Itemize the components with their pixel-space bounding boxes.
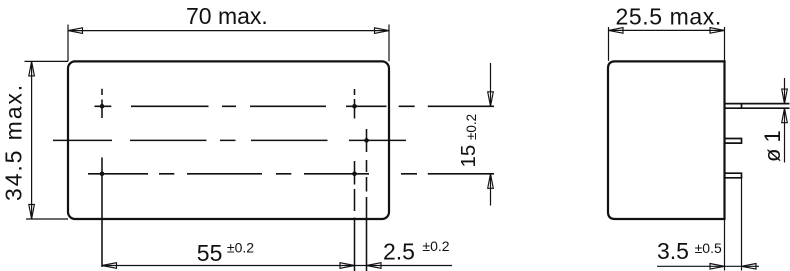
- svg-text:±0.5: ±0.5: [695, 240, 722, 256]
- dimension diameter 1: dimension line lower part: [784, 108, 786, 162]
- dimension 34.5 max: dimension line: [31, 61, 33, 219]
- svg-text:25.5 max.: 25.5 max.: [616, 3, 722, 29]
- svg-text:±0.2: ±0.2: [227, 240, 254, 256]
- dimension 15: upper arrowhead (points down): [488, 92, 494, 107]
- pin 2 (middle): [725, 139, 742, 144]
- dimension 34.5 max: top arrowhead: [29, 61, 35, 76]
- dimension 70 max: left arrowhead: [68, 28, 83, 34]
- dimension 70 max: dimension line: [68, 30, 389, 32]
- dimension 55: right arrowhead: [340, 263, 355, 269]
- pin hole mark middle: [364, 138, 369, 143]
- dimension 70 max: extension line right: [388, 25, 390, 62]
- svg-text:70 max.: 70 max.: [186, 3, 268, 29]
- dimension diameter 1: upper arrowhead (points down): [782, 89, 788, 104]
- dimension 70 max: extension line left: [67, 25, 69, 62]
- svg-text:3.5: 3.5: [657, 238, 689, 264]
- pin hole mark top-right: [352, 104, 357, 109]
- dimension 2.5: arrowhead from right: [367, 263, 382, 269]
- dimension 34.5 max: extension line top: [25, 60, 69, 62]
- center line row 2 (middle pin row): [53, 139, 406, 141]
- svg-text:15: 15: [457, 145, 480, 168]
- center line column B (right pins x=354.5): [354, 89, 356, 271]
- dimension 34.5 max: bottom arrowhead: [29, 205, 35, 220]
- dimension 34.5 max: extension line bottom: [26, 218, 68, 220]
- dimension 25.5 max: left arrowhead: [609, 28, 624, 34]
- pin hole mark bottom-right: [352, 172, 357, 177]
- dimension 15: dimension line upper part: [490, 63, 492, 106]
- dimension 15: lower arrowhead (points up): [488, 174, 494, 189]
- center line row 1 (top pin row): [95, 105, 495, 107]
- dimension 3.5: arrowhead from left (points right): [710, 264, 725, 270]
- dimension 3.5: dimension line: [657, 265, 759, 267]
- side view outline (25.5 wide body, flat pin face right): [608, 61, 725, 219]
- pin hole mark bottom-left: [100, 172, 105, 177]
- svg-text:±0.2: ±0.2: [422, 238, 449, 254]
- dimension 55: left arrowhead: [102, 263, 117, 269]
- dimension 25.5 max: right arrowhead: [710, 28, 725, 34]
- dimension 3.5: extension line at body face: [724, 219, 726, 271]
- svg-text:ø 1: ø 1: [760, 130, 785, 162]
- pin 3 (bottom): [725, 173, 742, 178]
- top view outline (70 x 34.5 body): [68, 61, 389, 219]
- dimension 70 max: right arrowhead: [375, 28, 390, 34]
- svg-text:2.5: 2.5: [383, 238, 415, 264]
- center line column A (left pins x=102): [101, 89, 103, 267]
- dimension 3.5: arrowhead from right (points left): [742, 264, 757, 270]
- svg-text:55: 55: [197, 240, 223, 266]
- center line column C (middle pin x=366.5): [366, 129, 368, 271]
- svg-text:34.5 max.: 34.5 max.: [1, 83, 27, 201]
- pin 1 (top) with edges extended for diameter dim: [725, 104, 790, 109]
- dimension 15: dimension line lower part: [490, 174, 492, 206]
- pin hole mark top-left: [100, 104, 105, 109]
- dimension 25.5 max: dimension line: [609, 29, 725, 31]
- svg-text:±0.2: ±0.2: [464, 114, 479, 140]
- dimension 3.5: extension line at pin tip: [741, 178, 743, 271]
- center line row 3 (bottom pin row): [88, 173, 494, 175]
- dimension 25.5 max: extension line right: [724, 27, 726, 61]
- dimension 25.5 max: extension line left: [608, 27, 610, 61]
- dimension diameter 1: lower arrowhead (points up): [782, 108, 788, 123]
- dimension 55 / 2.5: dimension line: [102, 265, 452, 267]
- dimension diameter 1: dimension line upper part: [784, 78, 786, 104]
